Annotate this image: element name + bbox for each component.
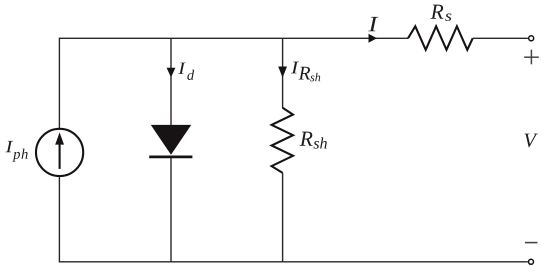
wire: bottom horizontal — [59, 261, 527, 263]
resistor Rsh (vertical zigzag) — [272, 108, 293, 173]
label IRsh — [291, 62, 299, 74]
current source Iph — [36, 129, 83, 176]
wire: diode branch upper — [170, 38, 172, 126]
label V — [524, 134, 537, 148]
arrow IRsh — [278, 67, 287, 78]
label Rs — [430, 5, 443, 19]
terminal: positive (open circle) — [529, 36, 534, 41]
wire: top horizontal from Rs to positive terminal — [473, 37, 528, 39]
terminal: negative (open circle) — [529, 259, 534, 264]
arrow I (top wire) — [369, 34, 378, 43]
wire: top horizontal from left corner to Rs — [59, 37, 408, 39]
resistor Rs (horizontal zigzag) — [408, 26, 473, 50]
wire: diode branch lower — [170, 156, 172, 262]
label Rsh — [300, 132, 313, 146]
wire: shunt branch upper — [282, 38, 284, 108]
minus sign — [525, 242, 538, 244]
label Id — [178, 63, 186, 74]
wire: left vertical upper (top corner to current source) — [58, 38, 60, 129]
plus sign — [524, 56, 539, 58]
label I (top) — [368, 17, 378, 31]
label Iph — [6, 141, 14, 152]
arrow Id — [167, 68, 176, 78]
wire: left vertical lower (current source to bottom corner) — [58, 176, 60, 262]
wire: shunt branch lower — [282, 173, 284, 262]
diode D — [151, 125, 191, 155]
